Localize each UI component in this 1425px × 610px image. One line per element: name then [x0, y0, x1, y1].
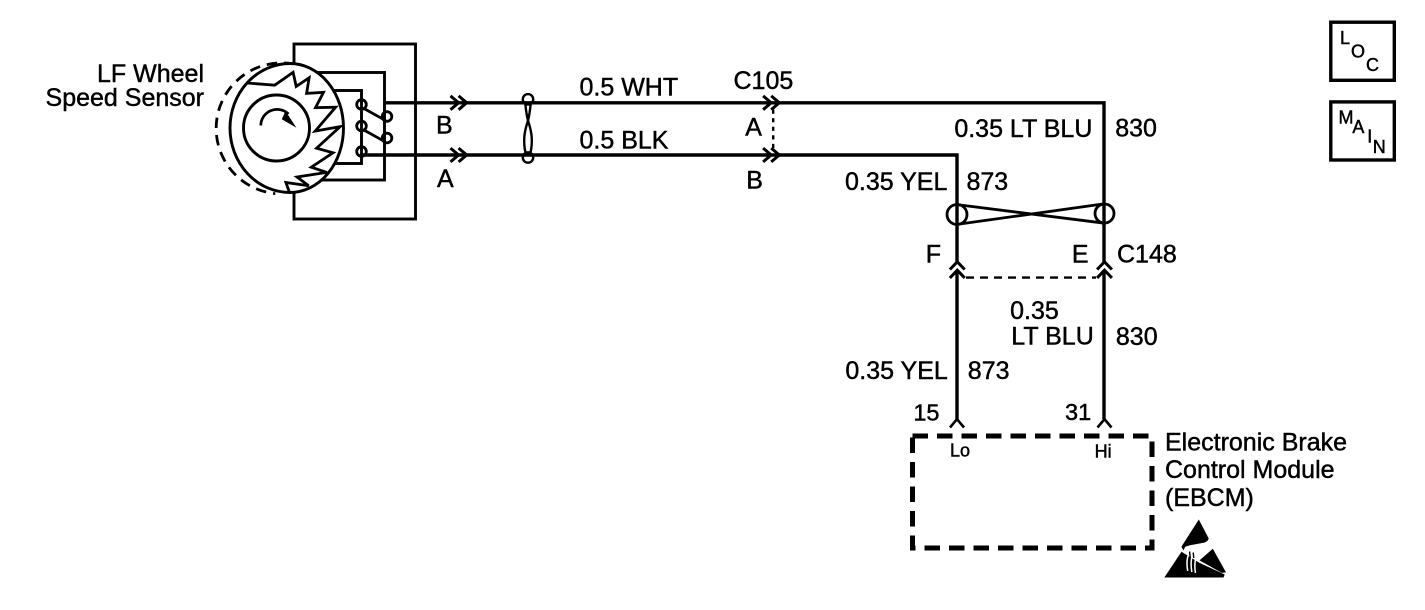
svg-text:Speed Sensor: Speed Sensor [46, 84, 204, 112]
svg-text:C: C [1366, 55, 1379, 75]
svg-text:C105: C105 [734, 67, 794, 95]
svg-text:I: I [1367, 126, 1372, 146]
svg-text:(EBCM): (EBCM) [1165, 484, 1254, 512]
connector C105 chevrons pin A [763, 96, 779, 110]
rotation arrow [261, 109, 289, 125]
svg-text:C148: C148 [1117, 240, 1177, 268]
terminal fork pin 15 [950, 419, 964, 427]
sensor coil box [318, 91, 362, 164]
connector C148 chevrons pin F [950, 262, 965, 278]
svg-text:B: B [746, 167, 763, 195]
svg-text:LT BLU: LT BLU [1011, 323, 1093, 351]
svg-text:E: E [1072, 240, 1089, 268]
svg-text:0.35 LT BLU: 0.35 LT BLU [954, 115, 1092, 143]
ESD symbol [1164, 520, 1226, 578]
svg-text:B: B [436, 112, 453, 140]
svg-text:A: A [745, 113, 762, 141]
twisted wires bowtie symbol [947, 204, 1114, 225]
svg-text:F: F [926, 240, 941, 268]
svg-text:Hi: Hi [1095, 441, 1112, 461]
svg-text:M: M [1339, 108, 1354, 128]
connector C105 dashed link [772, 110, 774, 149]
connector C148 dashed link [966, 276, 1096, 278]
coil winding [357, 100, 392, 157]
sensor connector chevrons pin A [451, 148, 467, 162]
wire segment below C148 on 830 [1102, 270, 1105, 419]
connector C148 chevrons pin E [1097, 262, 1112, 278]
svg-text:A: A [437, 165, 454, 193]
svg-text:0.35 YEL: 0.35 YEL [845, 168, 948, 196]
svg-text:Control Module: Control Module [1165, 456, 1335, 484]
connector C105 chevrons pin B [763, 148, 779, 162]
MAIN box [1331, 102, 1395, 160]
svg-text:0.35: 0.35 [1010, 297, 1059, 325]
svg-text:15: 15 [913, 399, 939, 425]
EBCM dashed box [913, 436, 1153, 548]
svg-text:A: A [1352, 117, 1364, 137]
tone wheel outline [230, 64, 343, 193]
twisted pair symbol [523, 94, 533, 163]
sensor middle box [308, 73, 385, 181]
svg-text:Electronic Brake: Electronic Brake [1165, 429, 1347, 457]
rotor inner circle [244, 95, 310, 161]
svg-text:873: 873 [968, 357, 1010, 385]
svg-text:0.5 WHT: 0.5 WHT [580, 73, 679, 101]
tone wheel teeth [247, 72, 340, 192]
svg-text:N: N [1373, 137, 1386, 157]
terminal fork pin 31 [1098, 419, 1112, 427]
svg-text:O: O [1351, 41, 1365, 61]
wire segment below C148 on 873 [955, 270, 958, 419]
svg-text:Lo: Lo [950, 441, 970, 461]
svg-text:873: 873 [967, 168, 1009, 196]
LOC box [1331, 22, 1395, 80]
sensor outer box [294, 44, 416, 219]
wire A 0.5 BLK (bottom horizontal + left vertical 873) [362, 155, 958, 262]
wire B 0.5 WHT (top horizontal + right vertical 830) [384, 103, 1104, 262]
svg-text:830: 830 [1116, 323, 1158, 351]
sensor connector chevrons pin B [451, 96, 467, 110]
tone wheel dashed circle [216, 63, 347, 194]
svg-text:0.35 YEL: 0.35 YEL [845, 357, 948, 385]
svg-text:0.5 BLK: 0.5 BLK [580, 126, 669, 154]
svg-text:L: L [1340, 28, 1350, 48]
svg-text:830: 830 [1115, 115, 1157, 143]
svg-text:31: 31 [1065, 399, 1091, 425]
